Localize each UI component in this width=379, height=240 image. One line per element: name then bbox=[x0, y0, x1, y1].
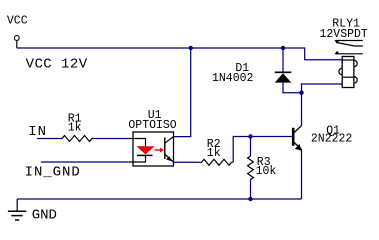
transistor Q1 bbox=[292, 128, 295, 146]
svg-text:GND: GND bbox=[32, 208, 57, 224]
node junction D1/relay/Q1 bbox=[299, 91, 303, 95]
wire U1 emitter to R2 bbox=[174, 161, 199, 163]
svg-text:1N4002: 1N4002 bbox=[212, 72, 254, 85]
U1 pin1 anode feed bbox=[133, 139, 146, 147]
svg-text:10k: 10k bbox=[256, 165, 277, 178]
resistor R2 bbox=[198, 159, 233, 165]
diode D1 bbox=[275, 71, 292, 73]
node junction VCC/collector bbox=[189, 46, 193, 50]
wire R3 bottom bbox=[250, 180, 252, 200]
relay RLY1 coil bbox=[342, 57, 354, 88]
wire IN to R1 bbox=[37, 138, 59, 140]
wire R3 top bbox=[250, 137, 252, 157]
wire VCC to D1 bbox=[282, 48, 284, 72]
ground bbox=[16, 199, 18, 211]
resistor R3 bbox=[248, 156, 254, 180]
wire node to Q1 collector bbox=[301, 93, 303, 126]
wire GND rail bbox=[17, 198, 301, 200]
node junction R3/GND rail bbox=[248, 197, 252, 201]
svg-text:12VSPDT: 12VSPDT bbox=[320, 28, 368, 41]
wire relay coil bottom bbox=[302, 84, 343, 93]
wire R1 to U1 bbox=[95, 138, 128, 140]
LED cathode bar bbox=[137, 154, 153, 156]
svg-text:OPTOISO: OPTOISO bbox=[128, 119, 176, 132]
svg-text:VCC 12V: VCC 12V bbox=[26, 56, 88, 72]
wire R2 to Q1 base bbox=[233, 137, 293, 163]
relay RLY1 common arm bbox=[336, 42, 363, 46]
U1 pin2 cathode feed bbox=[133, 155, 146, 162]
light arrow bbox=[155, 149, 161, 151]
node junction VCC/D1 bbox=[281, 46, 285, 50]
svg-text:2N2222: 2N2222 bbox=[311, 133, 353, 146]
relay RLY1 NC contact bbox=[335, 40, 362, 42]
svg-text:1k: 1k bbox=[68, 122, 82, 135]
svg-text:IN_GND: IN_GND bbox=[25, 164, 81, 180]
wire IN_GND to U1 bbox=[41, 161, 129, 163]
svg-text:1k: 1k bbox=[207, 147, 221, 160]
op-amp U1 optocoupler box bbox=[133, 132, 174, 166]
svg-text:IN: IN bbox=[28, 124, 47, 140]
port VCC terminal bbox=[14, 36, 19, 41]
wire U1 collector to VCC rail bbox=[174, 48, 191, 137]
wire VCC rail bbox=[17, 48, 342, 60]
LED of U1 bbox=[137, 146, 155, 154]
svg-text:VCC: VCC bbox=[7, 14, 28, 27]
wire D1 bottom to node bbox=[283, 83, 302, 93]
wire Q1 emitter to GND rail bbox=[301, 150, 303, 199]
relay RLY1 NO contact bbox=[336, 53, 363, 55]
node junction base/R3 bbox=[248, 134, 252, 138]
phototransistor of U1 bbox=[164, 138, 166, 160]
resistor R1 bbox=[59, 136, 95, 142]
